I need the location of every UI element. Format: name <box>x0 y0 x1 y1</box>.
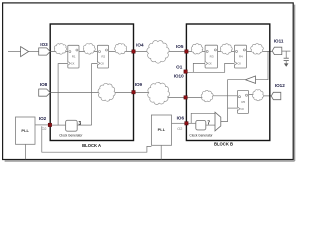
PLL 2 <box>151 115 171 145</box>
cloud after R5 <box>252 90 263 101</box>
flip-flop R3 <box>205 45 217 68</box>
svg-text:IO12: IO12 <box>275 83 285 88</box>
wire: clock generator B output to mux <box>206 124 215 126</box>
svg-text:BLOCK B: BLOCK B <box>214 142 233 147</box>
svg-text:IO3: IO3 <box>40 42 48 47</box>
wire: input stub to buffer <box>8 51 21 53</box>
wire: O1 clock net <box>187 63 234 72</box>
wire: PLL2 bottom stub <box>160 145 162 159</box>
IO9 pad <box>132 91 135 94</box>
input buffer <box>21 47 29 57</box>
wire: PLL1 to IO2 <box>35 124 48 126</box>
IO5 pad <box>185 50 188 53</box>
IO10 pad <box>184 96 187 99</box>
wire: PLL1 bottom stub <box>24 144 26 159</box>
wire: R5 to IO12 <box>249 95 272 96</box>
flip-flop R4 <box>234 45 246 68</box>
svg-text:IO10: IO10 <box>174 73 184 78</box>
load capacitor on IO11 net <box>284 51 289 67</box>
wire: feedback from IO11 net to inverter <box>256 51 269 79</box>
combinational cloud <box>54 43 66 54</box>
svg-text:O2: O2 <box>41 127 46 131</box>
cloud in Block B row2 <box>201 90 213 101</box>
svg-text:R3: R3 <box>210 54 214 58</box>
svg-text:IO11: IO11 <box>274 39 284 44</box>
svg-text:CK: CK <box>241 107 245 111</box>
combinational cloud <box>251 44 264 55</box>
wire: PLL2 to IO6 <box>172 122 185 124</box>
wire: IO11 output <box>281 50 291 52</box>
combinational cloud <box>191 44 203 54</box>
svg-text:IO2: IO2 <box>39 116 47 121</box>
wire: R5 clock stub <box>228 107 238 109</box>
svg-text:O1: O1 <box>176 65 183 70</box>
IO4 pad <box>132 50 135 53</box>
svg-text:IO8: IO8 <box>40 82 48 87</box>
svg-text:BLOCK A: BLOCK A <box>82 143 101 148</box>
svg-text:7: 7 <box>207 120 210 126</box>
IO2 pad <box>48 123 51 126</box>
IO8 pad cell <box>39 89 51 96</box>
IO6 pad <box>185 122 188 125</box>
PLL 1 <box>16 117 36 144</box>
wire: O1 branch to R3 clock <box>193 63 205 72</box>
clock generator B <box>189 120 213 137</box>
svg-text:Clock Generator: Clock Generator <box>59 134 83 138</box>
inter-block cloud top <box>147 41 169 64</box>
clock mux <box>215 112 221 131</box>
wire: clock generator A output <box>77 124 91 126</box>
outer border <box>3 3 294 160</box>
wire: IO9 to middle cloud <box>135 93 184 98</box>
svg-text:CK: CK <box>208 62 212 66</box>
IO3 pad cell <box>39 48 51 55</box>
feedback inverter (points left) <box>245 76 255 83</box>
wire: buffer to IO3 <box>29 51 39 53</box>
svg-text:PLL: PLL <box>158 127 166 132</box>
combinational cloud <box>83 43 95 54</box>
cloud in Block A row2 <box>98 83 115 101</box>
combinational cloud <box>114 43 126 54</box>
flip-flop R1 <box>68 45 79 68</box>
svg-text:R1: R1 <box>72 54 76 58</box>
wire: IO4 to cloud to IO5 <box>135 51 185 53</box>
svg-text:IO5: IO5 <box>176 44 184 49</box>
svg-text:IO4: IO4 <box>136 43 144 48</box>
O1 pad <box>184 70 187 73</box>
wire: row1 Block B run IO5..IO11 <box>188 50 272 52</box>
wire: IO10 to R5 <box>187 96 237 98</box>
svg-text:IO9: IO9 <box>135 82 143 87</box>
svg-text:R5: R5 <box>241 100 245 104</box>
wire: O2 net to PLL2 <box>42 126 152 152</box>
frame shadow <box>5 5 295 161</box>
Block B boundary <box>186 24 269 141</box>
wire: inverter output down to R5 clock <box>221 80 246 122</box>
flip-flop R5 <box>237 91 248 114</box>
IO11 pad cell <box>272 47 282 54</box>
wire: IO2 to clock generator A <box>52 124 66 126</box>
wire: FF2 clock net <box>92 64 98 126</box>
Block A boundary <box>50 24 133 141</box>
IO12 pad cell <box>271 92 281 99</box>
svg-text:3: 3 <box>78 121 81 127</box>
wire: IO6 to clock generator B and mux bypass <box>188 122 196 124</box>
svg-text:R4: R4 <box>239 54 243 58</box>
svg-text:Clock Generator: Clock Generator <box>189 134 213 138</box>
svg-text:R2: R2 <box>101 54 105 58</box>
svg-text:CK: CK <box>238 62 242 66</box>
svg-text:O2: O2 <box>177 127 182 131</box>
inter-block cloud middle <box>148 82 170 104</box>
svg-text:CK: CK <box>71 62 75 66</box>
svg-text:CK: CK <box>101 62 105 66</box>
wire: row1 Block A run IO3..IO4 <box>50 51 132 53</box>
flip-flop R2 <box>97 45 108 68</box>
svg-text:IO6: IO6 <box>177 116 185 121</box>
clock generator A <box>59 120 83 137</box>
svg-text:PLL: PLL <box>21 128 29 133</box>
wire: IO8 to IO9 row <box>50 92 132 94</box>
combinational cloud <box>220 44 232 55</box>
wire: FF1 clock net <box>58 64 68 126</box>
